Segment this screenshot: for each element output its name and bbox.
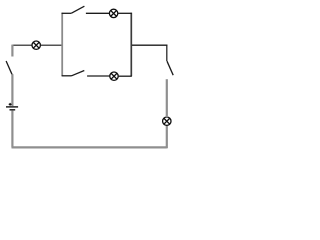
wire: middle-left horizontal from node A to lamp L2 (12, 44, 32, 46)
wire: bottom horizontal (12, 146, 167, 148)
lamp L3 (bottom branch) (110, 72, 118, 80)
switch S4 blade (open, bottom branch) (72, 71, 85, 76)
wire: parallel block left vertical (61, 13, 63, 76)
wire: left vertical from switch S1 down to battery (11, 74, 13, 106)
wire: right vertical from bottom-right corner up to lamp L4 (166, 125, 168, 148)
switch S3 blade (open, right side) (167, 61, 173, 75)
wire: top branch from lamp L1 to top-right corner (118, 12, 132, 14)
lamp L2 (middle-left) (32, 41, 40, 49)
wire: bottom branch from switch S4 to lamp L3 (87, 75, 110, 77)
wire: right vertical from lamp L4 up to switch S3 (166, 79, 168, 117)
switch S2 blade (open, top branch) (71, 6, 84, 13)
wire: top branch from corner to switch S2 pivot (62, 12, 72, 14)
switch S1 blade (open, left side) (6, 61, 12, 75)
battery B1 positive plate (long) (6, 106, 18, 108)
wire: bottom branch from lamp L3 to bottom-right corner of block (118, 75, 132, 77)
wire: left vertical upper segment (node A down to switch S1) (11, 45, 13, 57)
battery B1 negative plate (short, thick) (10, 109, 16, 111)
wire: right vertical upper segment (switch S3 up to corner) (166, 45, 168, 62)
wire: left vertical from battery down to bottom-left corner (11, 111, 13, 148)
lamp L1 (top branch) (109, 9, 117, 17)
battery B1 plus sign (9, 103, 12, 106)
wire: middle-left horizontal from lamp L2 to block left vertical (40, 44, 62, 46)
wire: bottom branch from corner to switch S4 pivot (62, 75, 72, 77)
wire: parallel block right vertical (130, 13, 132, 76)
wire: middle-right horizontal (block right vertical to right corner) (131, 44, 167, 46)
lamp L4 (right) (163, 117, 171, 125)
wire: top branch from switch S2 to lamp L1 (86, 12, 110, 14)
